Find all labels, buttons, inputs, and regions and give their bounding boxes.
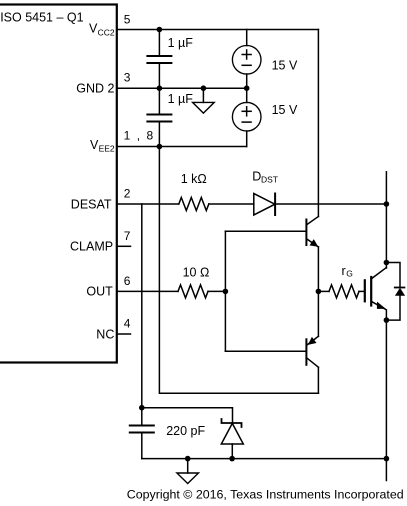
svg-text:5: 5 xyxy=(124,12,131,26)
svg-text:1 , 8: 1 , 8 xyxy=(124,128,155,142)
resistor R1 1k xyxy=(179,172,209,211)
wire GND2 pin3 xyxy=(117,87,247,89)
svg-text:2: 2 xyxy=(124,186,131,200)
wire DESAT branch down xyxy=(141,204,143,408)
resistor R2 10ohm xyxy=(178,266,209,298)
pin VCC2 label xyxy=(89,22,115,38)
svg-text:220 pF: 220 pF xyxy=(166,424,205,438)
svg-text:OUT: OUT xyxy=(86,285,113,299)
junction node GND2/V1-V2 xyxy=(244,85,250,91)
svg-text:1 kΩ: 1 kΩ xyxy=(181,172,207,186)
wire DDST to collector node xyxy=(275,203,386,205)
capacitor C3 220pF xyxy=(130,408,206,459)
wire OUT pin6 to resistor xyxy=(117,290,178,292)
wire rG to gate xyxy=(359,290,364,292)
wire R2 to base rail xyxy=(208,290,225,292)
wire NC stub xyxy=(117,333,131,335)
svg-text:EE2: EE2 xyxy=(99,143,115,153)
svg-text:G: G xyxy=(346,269,353,279)
wire VEE2 down and across xyxy=(159,147,318,394)
wire emitter node down xyxy=(385,320,387,480)
svg-text:1 µF: 1 µF xyxy=(168,92,194,106)
svg-text:NC: NC xyxy=(96,327,114,341)
wire PNP collector down xyxy=(317,367,319,393)
IC U1 ISO5451-Q1 xyxy=(0,5,117,363)
junction node GND2/ground xyxy=(201,85,207,91)
junction node OUT/base rail xyxy=(223,289,229,295)
svg-text:1 µF: 1 µF xyxy=(168,36,194,50)
wire VCC2 pin5 xyxy=(117,29,319,31)
transistor Q1 npn xyxy=(306,217,318,247)
voltage source V1 15V xyxy=(232,30,298,89)
wire DESAT pin2 to resistor xyxy=(117,203,179,205)
svg-text:Copyright © 2016, Texas Instru: Copyright © 2016, Texas Instruments Inco… xyxy=(127,487,404,501)
ground (bottom) xyxy=(177,459,199,484)
svg-text:CC2: CC2 xyxy=(98,27,115,37)
capacitor C2 1uF xyxy=(147,88,193,146)
transistor Q3 igbt xyxy=(365,268,387,321)
wire collector node vertical xyxy=(385,172,387,268)
junction node bottom rail/emitter xyxy=(384,456,390,462)
svg-text:ISO 5451 – Q1: ISO 5451 – Q1 xyxy=(0,10,83,24)
wire emitter rail xyxy=(317,247,319,336)
diode DDST xyxy=(252,170,278,216)
capacitor C1 1uF xyxy=(147,30,193,89)
wire VCC2 rail down xyxy=(317,30,319,217)
svg-text:r: r xyxy=(342,264,346,278)
svg-text:CLAMP: CLAMP xyxy=(70,240,113,254)
svg-text:3: 3 xyxy=(124,71,131,85)
junction node IGBT emitter xyxy=(384,317,390,323)
svg-text:15 V: 15 V xyxy=(272,58,298,72)
wire R1 to DDST xyxy=(209,203,254,205)
svg-text:4: 4 xyxy=(124,317,131,331)
junction node DESAT/collector rail xyxy=(384,201,390,207)
junction node IGBT collector xyxy=(384,260,390,266)
voltage source V2 15V xyxy=(232,88,298,146)
svg-text:15 V: 15 V xyxy=(272,103,298,117)
junction node emitter rail/rG xyxy=(316,289,322,295)
diode D2 zener xyxy=(221,419,243,459)
svg-text:6: 6 xyxy=(124,274,131,288)
wire VEE2 pin xyxy=(117,146,247,148)
junction node DESAT blanking/C3 xyxy=(139,405,145,411)
wire base rail xyxy=(225,231,305,351)
junction node VEE2/C2 xyxy=(157,144,163,150)
svg-text:GND 2: GND 2 xyxy=(76,82,114,96)
junction node bottom rail/ground xyxy=(185,456,191,462)
ground (GND2) xyxy=(193,88,215,113)
svg-text:DST: DST xyxy=(261,174,278,184)
wire bottom rail xyxy=(142,458,387,460)
diode D3 freewheel xyxy=(386,263,405,321)
wire emitter rail to rG xyxy=(318,290,329,292)
wire 220pF node across xyxy=(142,408,233,422)
junction node bottom rail/zener xyxy=(229,456,235,462)
junction node GND2/C1-C2 xyxy=(157,85,163,91)
svg-text:D: D xyxy=(252,170,261,184)
wire CLAMP stub xyxy=(117,245,131,247)
svg-text:7: 7 xyxy=(124,229,131,243)
transistor Q2 pnp xyxy=(306,336,318,367)
svg-text:10 Ω: 10 Ω xyxy=(183,266,210,280)
svg-text:DESAT: DESAT xyxy=(71,198,112,212)
resistor R3 rG xyxy=(329,264,359,298)
junction node VCC2/C1 xyxy=(157,27,163,33)
pin VEE2 label xyxy=(90,138,115,153)
